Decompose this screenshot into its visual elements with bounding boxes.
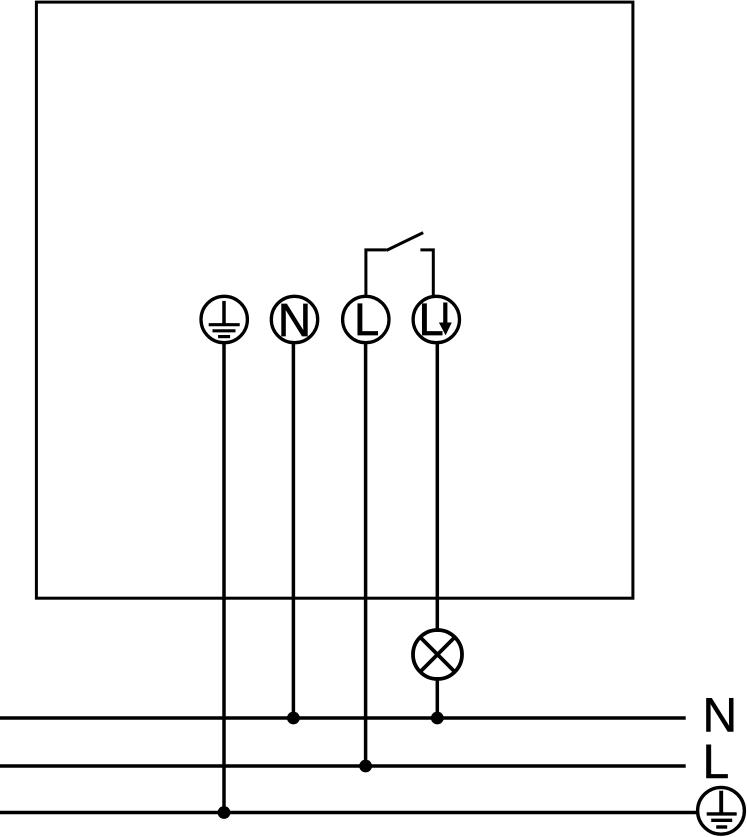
earth symbol inside PE terminal: [209, 301, 240, 337]
down arrow in switched terminal: [439, 303, 452, 336]
lamp circle: [413, 630, 462, 679]
lamp X arms: [421, 638, 455, 672]
switch: left riser wire from L terminal: [366, 250, 387, 296]
svg-text:N: N: [703, 690, 738, 743]
switch blade (open contact): [387, 233, 424, 251]
wire: N terminal down to N line: [292, 343, 296, 718]
terminal PE (earth) circle: [201, 296, 247, 342]
wire: switched-L terminal down to lamp: [436, 343, 440, 632]
terminal L-switched circle: [413, 296, 459, 342]
svg-text:L: L: [419, 294, 444, 345]
terminal L circle: [343, 296, 389, 342]
junction dot lamp wire / N line: [431, 712, 444, 725]
wire: lamp down to N line: [436, 677, 440, 718]
device enclosure box: [36, 2, 633, 598]
junction dot L wire / L line: [359, 760, 372, 773]
svg-text:L: L: [703, 736, 730, 789]
earth symbol circle at end of PE line: [698, 787, 745, 834]
svg-text:L: L: [354, 294, 379, 345]
svg-text:N: N: [278, 294, 311, 346]
wire: L terminal down to L line: [364, 343, 368, 766]
PE supply line: [0, 811, 697, 815]
junction dot PE wire / PE line: [218, 806, 231, 819]
switch: right stub and riser wire to L-switched terminal: [420, 250, 433, 296]
L supply line: [0, 764, 686, 768]
N supply line: [0, 716, 686, 720]
earth symbol inside bottom-right circle: [707, 791, 737, 827]
terminal N circle: [271, 296, 317, 342]
junction dot N wire / N line: [287, 712, 300, 725]
wire: PE terminal down to earth line: [222, 343, 226, 813]
